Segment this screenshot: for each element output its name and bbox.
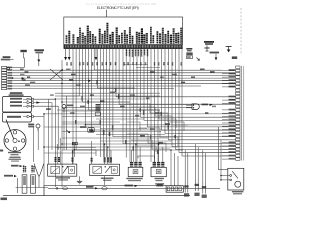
wire linking K3 K4 tops	[138, 156, 155, 158]
relay K4 labels above	[154, 162, 163, 167]
coil tower T1	[22, 165, 27, 193]
coil funnel wires	[34, 164, 44, 188]
relay K3 labels above	[132, 162, 141, 167]
ignition control module box	[2, 97, 31, 113]
sensor G1 circle with stem	[62, 105, 73, 113]
fusible link F1 label	[204, 41, 214, 43]
arrow on bus wire row3	[22, 77, 26, 80]
starter label	[232, 191, 244, 194]
label A-C select left	[1, 56, 14, 60]
dashed harness boundary wire	[240, 8, 242, 55]
ECU U1 electronic control unit box	[64, 17, 183, 48]
wire junction dots	[12, 69, 172, 150]
left edge tiny label	[0, 150, 3, 152]
4WD switch box	[80, 126, 94, 132]
wire stub arrow A	[64, 48, 67, 60]
left vertical wire x17	[17, 178, 19, 193]
sync sensor circle	[36, 124, 40, 128]
label above right area	[210, 52, 220, 61]
wire code label band on pin wires	[67, 62, 181, 66]
wire from ignition switch with arrow	[37, 54, 40, 66]
starter solenoid contacts	[230, 171, 238, 181]
label IGNITION SWITCH	[34, 49, 44, 53]
strip wire labels	[222, 69, 235, 159]
oxygen sensor B1 symbol	[186, 104, 213, 110]
wire stub arrow C	[95, 48, 98, 60]
bottom bus wire row	[44, 185, 166, 196]
bottom label left edge	[1, 198, 8, 201]
pickup coil label	[7, 116, 21, 118]
wire loop on row 1	[7, 67, 10, 70]
wire from HORN label	[23, 53, 26, 68]
coil area horizontal wire	[16, 187, 48, 189]
relay K3 diagnostic power	[128, 167, 143, 176]
arrow to wire down-right	[197, 58, 200, 61]
relay K2 fuel pump	[90, 164, 120, 175]
svg-text:Fig. 14: Engine Performance Wi: Fig. 14: Engine Performance Wiring Diagr…	[86, 2, 157, 6]
sync sensor labels	[28, 124, 34, 128]
left bus wires	[13, 68, 236, 89]
ECU pin wires descending	[55, 48, 236, 164]
connector J1 left junction block	[2, 66, 13, 89]
bottom wire with inline connectors	[48, 186, 220, 190]
left area vertical wires	[33, 60, 66, 196]
module output rows with connectors	[10, 98, 33, 108]
starter relay and motor box	[228, 168, 244, 190]
ignition coil label	[9, 157, 22, 162]
fuse block FB1	[166, 186, 183, 193]
relay K4 label below	[155, 178, 164, 181]
wire stub below K2	[104, 176, 106, 186]
distributor rotor dot	[18, 140, 20, 142]
inline connector P2	[195, 180, 197, 192]
wire stub arrow B	[68, 48, 71, 60]
label A-C bottom	[4, 175, 17, 178]
wire branch below P4	[74, 145, 96, 157]
starter motor M1 circle	[235, 181, 241, 187]
K3 K4 feed wires up	[132, 144, 163, 162]
small label right of bundle	[90, 130, 94, 132]
distributor cap towers	[5, 131, 25, 151]
relay K2 label below	[101, 178, 114, 181]
bottom long wire	[3, 195, 190, 197]
relay K1 labels above	[56, 138, 73, 164]
battery feed arrow symbol	[226, 47, 232, 53]
distributor shaft wire	[6, 120, 14, 139]
center mesh wires	[44, 65, 236, 154]
arrow on bus wire row5	[88, 80, 92, 83]
node label near harness	[232, 56, 237, 59]
distributor body circle	[4, 130, 26, 152]
relay K4 ignition feed	[151, 167, 166, 176]
wire code labels below ECU strip	[127, 50, 148, 58]
vertical wires right of K4	[171, 150, 178, 186]
relay K3 label below	[126, 178, 143, 181]
diagonal arrow to wire	[66, 130, 70, 133]
ECU title leader wire	[106, 10, 108, 17]
pickup coil box	[2, 113, 31, 123]
pickup coil connector	[23, 115, 44, 117]
sync sensor stem	[37, 128, 39, 131]
radio capacitor C1 boxes	[186, 48, 192, 58]
relay K1 label below	[56, 177, 70, 180]
inline connector P1	[184, 181, 186, 193]
module row wires right	[33, 99, 58, 106]
ECU pin number strip	[64, 44, 183, 48]
relay K1 auto shutdown	[48, 164, 77, 176]
fusible link F1 symbol	[204, 45, 209, 51]
label stack center	[95, 104, 100, 116]
module label	[9, 92, 24, 96]
connector J2 main harness strip	[236, 66, 244, 161]
coil tower T2	[31, 165, 36, 193]
distributor label	[8, 152, 21, 156]
svg-text:ELECTRONIC FTC UNIT (EFI): ELECTRONIC FTC UNIT (EFI)	[97, 6, 139, 10]
wire code labels scattered	[20, 69, 216, 155]
inline connector P3	[202, 182, 204, 194]
riser wires to bottom connectors	[185, 144, 205, 182]
ground symbol G1	[77, 176, 82, 184]
ECU pin name vertical labels	[67, 23, 182, 44]
label with arrow mid	[11, 165, 22, 168]
fuse block label	[155, 183, 164, 186]
relay K2 labels above	[92, 141, 111, 164]
inline connector P4 pair	[72, 142, 77, 145]
starter feed wires	[219, 127, 230, 181]
wire crossover X	[50, 69, 63, 80]
labels bottom mid	[125, 184, 163, 187]
label HORN over wire	[20, 50, 26, 52]
